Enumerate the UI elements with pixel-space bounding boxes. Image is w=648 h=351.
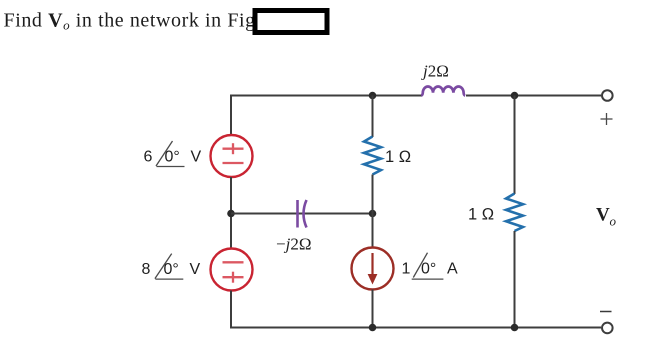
svg-text:1 Ω: 1 Ω (385, 148, 411, 166)
wire: right rail top (junction to resistor R2) (514, 96, 516, 195)
wire: middle rail top (junction to resistor R1) (372, 96, 374, 138)
svg-text:Find Vo in the network in Fig.: Find Vo in the network in Fig. (4, 10, 262, 33)
wire: right rail below R2 to bottom junction (514, 231, 516, 328)
current source I1 circle (352, 248, 394, 290)
wire: middle rail between R1 and middle node, down to current source (372, 175, 374, 249)
V2 plus symbol (223, 272, 244, 283)
output polarity plus sign (601, 113, 613, 125)
inductor L1 j2ohm (421, 86, 465, 95)
svg-text:V: V (191, 149, 202, 166)
V1 label 6/0 V (144, 141, 202, 167)
svg-text:6: 6 (144, 149, 153, 166)
node: bottom right junction (511, 324, 519, 332)
svg-text:j2Ω: j2Ω (421, 62, 449, 81)
V1 plus symbol (223, 143, 244, 154)
node: top middle junction (369, 92, 377, 100)
node: middle-right junction (369, 210, 377, 218)
V2 label 8/0 V (142, 254, 201, 280)
wire: middle rail below current source to bottom junction (372, 290, 374, 328)
I1 label 1/0 A (402, 253, 459, 279)
wire: top horizontal left segment (top-left corner to inductor) (231, 96, 422, 135)
resistor R1 1ohm (middle) (364, 137, 381, 175)
capacitor C1 left plate (296, 200, 299, 228)
voltage source V1 6V circle (211, 135, 253, 177)
wire: middle horizontal (capacitor branch) (231, 213, 373, 215)
node: top right junction (511, 92, 519, 100)
node: middle-left junction (227, 210, 235, 218)
svg-text:0°: 0° (421, 261, 436, 278)
wire: left rail between V1 and middle node (230, 177, 232, 249)
svg-text:8: 8 (142, 261, 151, 278)
svg-text:1: 1 (402, 261, 411, 278)
voltage source V2 8V circle (211, 249, 253, 291)
redaction box (255, 11, 327, 33)
V2 minus symbol (223, 261, 244, 263)
wire: left rail below V2 to bottom-left corner (231, 291, 601, 328)
resistor R2 1ohm (right) (506, 194, 523, 232)
svg-text:A: A (447, 261, 458, 278)
svg-text:V: V (596, 205, 610, 226)
svg-text:0°: 0° (165, 149, 180, 166)
svg-text:1 Ω: 1 Ω (468, 206, 494, 224)
svg-text:V: V (190, 261, 201, 278)
svg-text:−j2Ω: −j2Ω (276, 235, 311, 254)
capacitor C1 right plate (curved) (304, 200, 307, 228)
V1 minus symbol (223, 162, 244, 164)
svg-text:0°: 0° (164, 261, 179, 278)
terminal: bottom-right open circle (602, 323, 613, 334)
output polarity minus sign (600, 311, 612, 313)
terminal: top-right open circle (602, 90, 613, 101)
wire: top horizontal right segment (inductor to top-right terminal) (466, 95, 601, 97)
I1 arrow (downward) (368, 253, 378, 285)
svg-text:o: o (610, 214, 617, 229)
node: bottom middle junction (369, 324, 377, 332)
